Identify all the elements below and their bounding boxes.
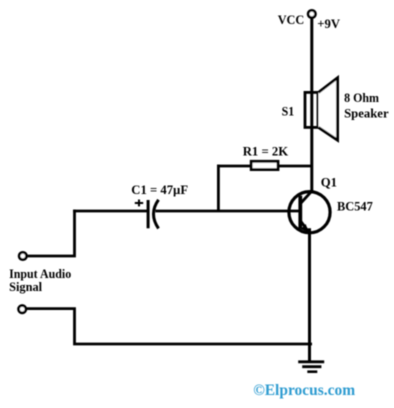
svg-text:Q1: Q1	[321, 175, 337, 190]
svg-text:Signal: Signal	[9, 280, 43, 294]
svg-text:©Elprocus.com: ©Elprocus.com	[253, 382, 355, 399]
svg-text:+9V: +9V	[317, 16, 340, 31]
svg-text:Input Audio: Input Audio	[9, 267, 71, 281]
svg-text:8 Ohm: 8 Ohm	[344, 90, 379, 105]
svg-text:C1 = 47µF: C1 = 47µF	[131, 182, 188, 197]
svg-text:Speaker: Speaker	[344, 105, 389, 120]
svg-text:VCC: VCC	[278, 12, 305, 27]
svg-text:S1: S1	[282, 104, 295, 119]
svg-text:BC547: BC547	[337, 199, 373, 214]
svg-text:R1 = 2K: R1 = 2K	[243, 144, 289, 159]
